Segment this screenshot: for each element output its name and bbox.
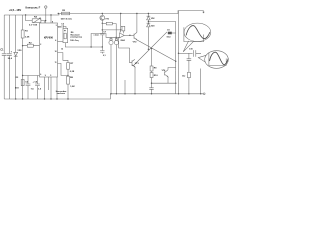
wire circle2 ground link <box>200 69 202 94</box>
svg-text:51К: 51К <box>15 88 19 90</box>
wire IC lower left link <box>23 75 40 77</box>
node gnd x125 <box>124 93 125 94</box>
svg-text:6: 6 <box>40 74 41 76</box>
svg-text:DA2: DA2 <box>121 39 126 42</box>
svg-text:12: 12 <box>61 48 63 50</box>
wire R8 feedback to IC <box>58 63 69 75</box>
node link left <box>151 83 152 84</box>
svg-text:50,0: 50,0 <box>8 58 13 60</box>
node opamp out <box>129 35 130 36</box>
wire output bottom link <box>152 82 176 84</box>
label phase comparator <box>70 33 82 42</box>
node rail-x120 <box>120 13 121 14</box>
transistor VT3 <box>130 48 140 67</box>
pin 12 <box>61 48 63 50</box>
pin 6 <box>40 74 41 76</box>
svg-text:1,0: 1,0 <box>38 89 42 91</box>
node VT3 gnd <box>134 93 135 94</box>
wire IC bottom pins <box>45 77 58 99</box>
capacitor C7 <box>100 23 107 47</box>
resistor R12 above opamp <box>121 26 125 33</box>
resistor R7 <box>67 63 75 73</box>
node C11 gnd <box>151 93 152 94</box>
svg-text:VT4: VT4 <box>162 69 167 72</box>
resistor R9 <box>150 66 157 71</box>
IC DA1 box <box>40 23 58 77</box>
label Kontrol F <box>26 5 41 9</box>
node R7-R8 <box>67 75 68 76</box>
transistor VT1 <box>100 14 110 24</box>
node rail-R4 tap <box>25 14 26 15</box>
wire IC pin2 top <box>50 15 52 23</box>
pin 9 <box>45 75 46 77</box>
wire right long vertical <box>178 11 180 94</box>
diode VD3 <box>147 23 155 49</box>
node diagB end <box>175 61 176 62</box>
svg-text:3,3К: 3,3К <box>25 37 30 39</box>
wire ground rail <box>4 94 203 99</box>
oscillogram circle 1 <box>184 23 211 42</box>
wire VT2 collector to rail <box>136 14 138 33</box>
label tuning <box>56 90 67 95</box>
node column diag <box>148 49 149 50</box>
wire IC right pin to block <box>58 41 64 43</box>
bubble tail 1 <box>183 41 194 52</box>
wire branch to opamp lower input <box>91 34 119 48</box>
svg-text:13: 13 <box>58 27 60 29</box>
svg-text:+ C4: + C4 <box>33 81 38 84</box>
svg-text:VD3: VD3 <box>151 25 155 27</box>
wire R2 link <box>23 45 40 47</box>
wire opamp to VT3 <box>119 37 130 48</box>
terminal tick top right <box>203 11 205 13</box>
svg-text:9: 9 <box>45 75 46 77</box>
svg-text:0,1: 0,1 <box>103 55 107 57</box>
svg-text:R1: R1 <box>25 31 29 33</box>
pin 10 <box>55 51 57 53</box>
svg-text:C10: C10 <box>189 48 194 50</box>
pin 11 <box>55 62 57 64</box>
resistor R11 in VT1 branch <box>102 22 116 37</box>
node rail-VT1 <box>102 13 103 14</box>
diode VD2 <box>147 14 155 24</box>
wire diag up-right <box>133 32 167 66</box>
wire VD1 branch <box>15 15 17 99</box>
node rail-diode column <box>148 13 149 14</box>
svg-text:C1: C1 <box>0 49 4 52</box>
pin 3 <box>56 25 57 27</box>
transistor VT2 <box>133 32 138 43</box>
svg-text:0,1–10К: 0,1–10К <box>29 25 38 27</box>
capacitor C4 <box>33 76 42 100</box>
potentiometer R4 <box>29 16 41 27</box>
resistor R8 <box>67 76 76 88</box>
svg-text:компаратор: компаратор <box>70 36 82 38</box>
resistor R10 <box>150 73 158 78</box>
wire C1 branch <box>3 15 5 99</box>
node right mid <box>178 53 179 54</box>
svg-text:10: 10 <box>55 51 57 53</box>
node R1-ground <box>22 98 23 99</box>
svg-text:4: 4 <box>55 39 56 42</box>
wire R chain <box>151 49 153 88</box>
node upper branch rail vert <box>120 29 121 30</box>
node gnd x117 <box>110 93 111 94</box>
wire output tap <box>101 47 103 50</box>
svg-text:10к: 10к <box>182 75 185 77</box>
svg-text:C7: C7 <box>103 32 107 34</box>
svg-text:R3: R3 <box>15 77 19 79</box>
node diode mid <box>148 21 149 22</box>
resistor R5 <box>61 10 72 20</box>
svg-text:0,2К: 0,2К <box>70 71 75 73</box>
phase comparator block <box>63 28 68 42</box>
capacitor C12 <box>187 53 192 72</box>
transistor VT4 <box>162 68 176 84</box>
wire C2 branch <box>8 15 10 99</box>
node link right <box>175 83 176 84</box>
node pin-gnd a <box>44 98 45 99</box>
resistor R1 <box>21 30 30 39</box>
label k vyv <box>94 34 100 36</box>
node R13 gnd <box>188 93 189 94</box>
svg-text:R9: R9 <box>154 68 158 70</box>
svg-text:R7: R7 <box>70 63 74 65</box>
svg-text:к выв.: к выв. <box>94 34 100 36</box>
node right gnd <box>178 93 179 94</box>
oscillogram circle 2 <box>205 51 229 69</box>
svg-text:VD1: VD1 <box>17 50 22 52</box>
svg-text:7,5: 7,5 <box>31 89 35 91</box>
node R1-IC lower tap <box>22 75 23 76</box>
pin 2 <box>40 44 41 46</box>
node gn2 gnd <box>116 93 117 94</box>
wire F terminal to pin1 net <box>45 8 47 20</box>
bubble tail 2 <box>198 55 206 62</box>
node VT2 rail <box>136 13 137 14</box>
node C7 upper branch <box>102 29 103 30</box>
svg-text:VT1: VT1 <box>105 18 110 20</box>
pin 1 <box>44 21 45 23</box>
node R1-R2 <box>22 45 23 46</box>
wire R1 branch <box>22 15 24 99</box>
capacitor C5 <box>25 76 34 100</box>
svg-text:R8: R8 <box>70 77 74 79</box>
svg-text:VD2: VD2 <box>151 18 155 20</box>
resistor R3 <box>15 77 24 90</box>
capacitor C11 <box>149 88 153 94</box>
svg-text:частоты: частоты <box>57 93 65 95</box>
wire upper branch <box>102 29 120 31</box>
label R6 <box>71 32 75 34</box>
pin 13 <box>58 27 60 29</box>
jack terminal Gn2 <box>114 37 118 94</box>
svg-text:C3: C3 <box>61 23 65 25</box>
node rail-R5 left <box>58 13 59 14</box>
pin 4 <box>55 39 56 42</box>
op-amp DA2 <box>120 33 126 42</box>
node circle2 gnd <box>200 93 201 94</box>
terminal circle F <box>45 6 47 8</box>
wire diag down-right <box>137 40 176 61</box>
wire IC pin to R7 <box>58 53 69 63</box>
svg-text:500–4 кОм: 500–4 кОм <box>61 17 72 20</box>
zener diode VD1 <box>14 50 23 56</box>
capacitor C2 <box>7 51 13 61</box>
node VT1 out <box>102 23 103 24</box>
svg-text:1: 1 <box>44 21 45 23</box>
svg-text:R4: R4 <box>34 16 38 19</box>
node jack2 tap <box>116 37 117 38</box>
wire R8 to ground <box>67 84 69 99</box>
wire comparator output <box>65 43 102 47</box>
node pin-gnd c <box>56 98 57 99</box>
svg-text:11: 11 <box>55 62 57 64</box>
wire R7-R8 <box>67 69 69 76</box>
capacitor C3 <box>58 23 67 28</box>
svg-text:3: 3 <box>56 25 57 27</box>
wire upper right vertical <box>175 22 177 71</box>
svg-text:5: 5 <box>50 75 51 77</box>
svg-text:Контроль F: Контроль F <box>26 5 41 9</box>
svg-text:180–Осц: 180–Осц <box>70 40 79 42</box>
pin 8 <box>52 21 53 23</box>
resistor R2 <box>27 42 33 47</box>
node rail-IC pin <box>50 14 51 15</box>
svg-text:2: 2 <box>40 44 41 46</box>
resistor R13 <box>182 72 190 94</box>
capacitor C8 output <box>100 51 106 57</box>
svg-text:R5: R5 <box>62 10 66 12</box>
node chain diag <box>151 48 152 49</box>
svg-text:+9,5...18V: +9,5...18V <box>9 8 22 12</box>
terminal circle ground <box>203 93 205 95</box>
wire top rail <box>4 11 203 15</box>
node R8 gnd <box>67 98 68 99</box>
svg-text:VT3: VT3 <box>135 63 140 65</box>
wire opamp out <box>124 34 134 36</box>
svg-text:КРУ606: КРУ606 <box>44 36 53 39</box>
wire coupling branch <box>179 52 193 54</box>
svg-text:+: + <box>11 51 13 54</box>
wire rail x120 down to opamp <box>120 14 121 33</box>
node R4 out <box>45 20 46 21</box>
capacitor C1 <box>0 49 6 56</box>
svg-text:R10: R10 <box>154 75 159 77</box>
svg-text:8: 8 <box>52 21 53 23</box>
polarized capacitor C9 <box>167 30 176 39</box>
capacitor C10 <box>189 48 201 56</box>
label +9.5-18V <box>9 8 22 12</box>
svg-text:VT2: VT2 <box>133 41 138 43</box>
pin 5 <box>50 75 51 77</box>
wire misc vertical x125 <box>124 80 126 94</box>
svg-text:C9: C9 <box>167 30 170 32</box>
wire R4 branch <box>26 15 46 23</box>
svg-text:1,0К: 1,0К <box>70 86 75 88</box>
wire VT3 emitter gnd <box>134 67 136 94</box>
node C7 out <box>102 46 103 47</box>
node branch up <box>90 46 91 47</box>
svg-text:50,0: 50,0 <box>167 36 172 38</box>
wire VT4 emitter join <box>175 70 177 94</box>
node VD1 ground <box>15 98 16 99</box>
jack terminal Gn1 <box>109 37 113 94</box>
wire diode branch right <box>148 21 175 23</box>
node pin-gnd b <box>50 98 51 99</box>
